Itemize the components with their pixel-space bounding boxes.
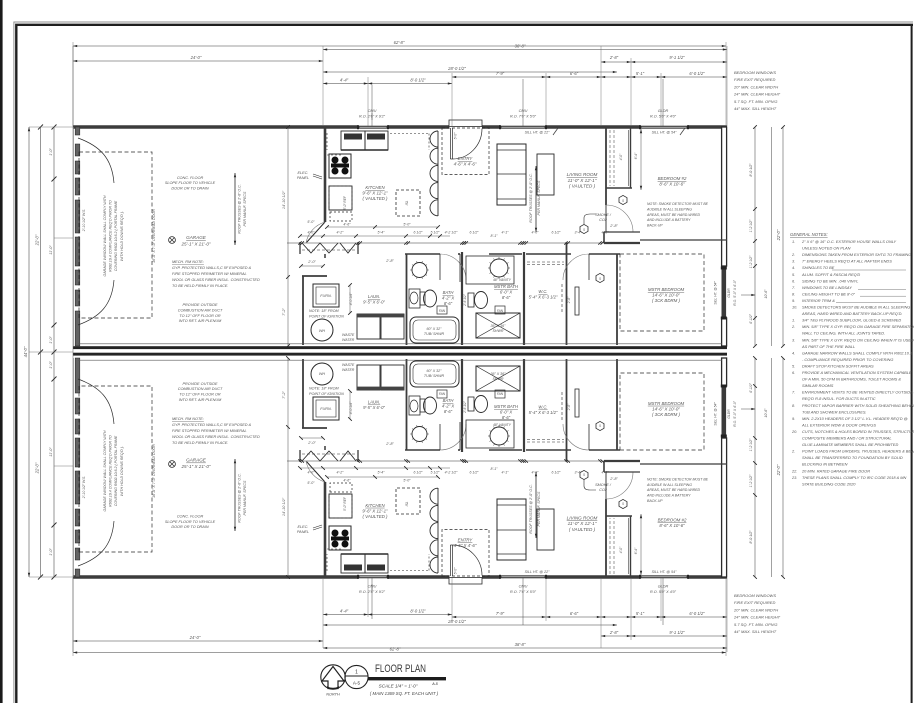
svg-text:3/4" T&G PLYWOOD SUBFLOOR, GLU: 3/4" T&G PLYWOOD SUBFLOOR, GLUED & SCREW… [802,318,901,323]
svg-text:PROVIDE OUTSIDE: PROVIDE OUTSIDE [182,382,217,386]
svg-text:WH: WH [319,329,325,333]
svg-text:9'-1 1/2": 9'-1 1/2" [669,630,685,635]
svg-text:CEILING HEIGHT TO BE 8'-0": CEILING HEIGHT TO BE 8'-0" [802,291,855,296]
svg-text:1'-2 1/2": 1'-2 1/2" [749,255,753,268]
svg-text:TO 12" OFF FLOOR OR: TO 12" OFF FLOOR OR [179,393,221,397]
svg-text:R.O. 2'6" X 9'2": R.O. 2'6" X 9'2" [359,590,386,594]
svg-text:POINT OF IGNITION: POINT OF IGNITION [309,314,344,318]
svg-text:GYP. PROTECTED WALLS,C 5F EXPO: GYP. PROTECTED WALLS,C 5F EXPOSED & [172,266,252,270]
svg-text:4.: 4. [792,265,795,270]
svg-text:CMU: CMU [519,585,528,589]
svg-text:WASTE: WASTE [342,363,355,367]
svg-text:4'-2 1/2": 4'-2 1/2" [445,231,459,235]
svg-text:36" X 36": 36" X 36" [491,324,507,328]
svg-text:16'-0" X 7'-0" OVERHEAD DOOR: 16'-0" X 7'-0" OVERHEAD DOOR [152,209,156,263]
svg-text:7'-2": 7'-2" [282,308,286,316]
svg-text:4'-0": 4'-0" [308,231,316,235]
svg-text:AREAS, HARD WIRED AND BATTERY: AREAS, HARD WIRED AND BATTERY BACK-UP RE… [801,311,902,316]
svg-text:( 3CK BDRM ): ( 3CK BDRM ) [652,298,681,303]
svg-text:5'-0": 5'-0" [403,479,411,483]
svg-text:4'-6" X 4'-6": 4'-6" X 4'-6" [454,162,477,167]
svg-text:SILL HT. @ 54": SILL HT. @ 54" [714,402,718,426]
svg-text:ENTRY: ENTRY [458,537,474,542]
svg-text:WH: WH [319,372,325,376]
svg-text:3'-4": 3'-4" [575,231,583,235]
svg-text:5'-1": 5'-1" [636,611,645,616]
svg-text:4.: 4. [792,350,795,355]
svg-text:MIN. 5/8" TYPE X GYP. REQ'D ON: MIN. 5/8" TYPE X GYP. REQ'D ON GARAGE FI… [802,324,914,329]
svg-text:2'-10 1/2" W.S.: 2'-10 1/2" W.S. [82,476,86,500]
svg-text:LIVING ROOM: LIVING ROOM [567,172,598,177]
svg-text:62'-8": 62'-8" [394,40,405,45]
svg-text:SILL HT. @ 54": SILL HT. @ 54" [652,570,677,574]
svg-text:22'-0": 22'-0" [776,464,781,476]
svg-text:2'-6 1/2": 2'-6 1/2" [463,400,467,414]
svg-text:5.7 SQ. FT. MIN. OPN'G: 5.7 SQ. FT. MIN. OPN'G [734,99,778,104]
svg-text:COMBUSTION AIR DUCT: COMBUSTION AIR DUCT [178,387,223,391]
svg-text:7'-9": 7'-9" [496,71,505,76]
svg-text:GLUE-LAMINATE MEMBERS SHALL BE: GLUE-LAMINATE MEMBERS SHALL BE PROHIBITE… [802,442,898,447]
svg-text:R.O. 5'0" X 4'0": R.O. 5'0" X 4'0" [650,590,677,594]
svg-text:14'-10 1/2": 14'-10 1/2" [282,497,286,516]
svg-text:44" MAX. SILL HEIGHT: 44" MAX. SILL HEIGHT [734,106,777,111]
svg-text:2'-10 1/2" W.S.: 2'-10 1/2" W.S. [82,209,86,233]
svg-text:SMOKE /: SMOKE / [595,483,612,487]
svg-text:2'-8": 2'-8" [609,630,619,635]
svg-text:6.: 6. [792,370,795,375]
svg-text:AND INCLUDE A BATTERY: AND INCLUDE A BATTERY [646,494,691,498]
svg-text:REQ'D R-8 INSUL. FOR DUCTS IN: REQ'D R-8 INSUL. FOR DUCTS IN ATTIC [802,396,876,401]
svg-text:R.O. 7'6" X 5'0": R.O. 7'6" X 5'0" [510,590,537,594]
svg-text:PANEL: PANEL [297,530,309,534]
svg-text:INTO RET. AIR PLENUM: INTO RET. AIR PLENUM [179,398,222,402]
svg-text:SCALE 1/4" = 1'-0": SCALE 1/4" = 1'-0" [379,684,418,689]
svg-text:20.: 20. [791,429,797,434]
svg-text:GARAGE WINDOW WALL SHALL COMPL: GARAGE WINDOW WALL SHALL COMPLY WITH [103,430,107,511]
svg-text:MECH. RM NOTE:: MECH. RM NOTE: [172,260,204,264]
svg-text:4'-0 1/4": 4'-0 1/4" [349,292,353,305]
svg-text:24'-0": 24'-0" [189,635,201,640]
svg-text:4'-2" X: 4'-2" X [442,295,455,300]
svg-text:1'-2 1/2": 1'-2 1/2" [749,474,753,487]
svg-text:3'-4": 3'-4" [575,471,583,475]
svg-text:FIRE STOPPED PERIMETER W/ MINE: FIRE STOPPED PERIMETER W/ MINERAL [172,272,247,276]
svg-text:4'-2": 4'-2" [337,231,345,235]
svg-text:SILL HT. @ 22": SILL HT. @ 22" [525,570,550,574]
svg-text:8'-1": 8'-1" [491,467,499,471]
svg-text:3.: 3. [792,337,795,342]
svg-text:2'-6 1/2": 2'-6 1/2" [463,293,467,307]
svg-text:PER MANUF. SPECS: PER MANUF. SPECS [537,491,541,526]
svg-text:2.: 2. [791,449,795,454]
svg-text:22.: 22. [791,468,797,473]
svg-text:2'-8": 2'-8" [567,403,571,411]
svg-text:OF A MIN. 50 CFM IN BATHROOMS,: OF A MIN. 50 CFM IN BATHROOMS, TOILET RO… [802,377,901,382]
svg-text:POINT OF IGNITION: POINT OF IGNITION [309,392,344,396]
svg-text:SIDING TO BE MIN. .040 VINYL: SIDING TO BE MIN. .040 VINYL [802,278,858,283]
svg-text:8'-6": 8'-6" [502,415,511,420]
svg-text:11'-0" X 12'-1": 11'-0" X 12'-1" [568,178,597,183]
svg-text:23.: 23. [791,475,797,480]
svg-text:ENVIRONMENT VENTS TO BE VENTED: ENVIRONMENT VENTS TO BE VENTED DIRECTLY … [802,390,914,395]
svg-text:6.: 6. [792,278,795,283]
svg-text:4'-4": 4'-4" [340,78,349,83]
svg-text:10.: 10. [792,305,797,310]
svg-text:4'-0": 4'-0" [308,471,316,475]
svg-text:20" MIN. CLEAR WIDTH: 20" MIN. CLEAR WIDTH [733,84,778,89]
svg-text:5: 5 [583,473,585,477]
svg-text:1'-0": 1'-0" [49,336,53,344]
svg-text:2'-0": 2'-0" [307,260,316,264]
svg-text:4'-0": 4'-0" [602,471,610,475]
svg-text:TO BE HELD FIRMLY IN PLACE.: TO BE HELD FIRMLY IN PLACE. [172,441,228,445]
svg-text:1'-0": 1'-0" [49,361,53,369]
svg-text:SMOKE DETECTORS MUST BE AUDIBL: SMOKE DETECTORS MUST BE AUDIBLE IN ALL S… [802,305,910,310]
svg-text:ISL: ISL [405,501,409,506]
svg-text:TO 12" OFF FLOOR OR: TO 12" OFF FLOOR OR [179,314,221,318]
svg-text:A-5: A-5 [353,681,361,686]
svg-text:14'-6" X 10'-0": 14'-6" X 10'-0" [652,406,680,411]
svg-text:60" X 32": 60" X 32" [427,369,443,373]
svg-text:1: 1 [355,670,358,676]
svg-text:6 1/2": 6 1/2" [413,471,423,475]
svg-text:GENERAL NOTES:: GENERAL NOTES: [790,232,828,237]
svg-text:8'-6" X 10'-6": 8'-6" X 10'-6" [659,182,685,187]
svg-text:3.: 3. [792,259,795,264]
svg-text:LAUN.: LAUN. [368,294,380,299]
svg-text:4'-0": 4'-0" [619,153,623,160]
svg-text:FURN.: FURN. [320,294,332,298]
svg-text:2" X 6" @ 16" O.C. EXTERIOR HO: 2" X 6" @ 16" O.C. EXTERIOR HOUSE WALLS … [801,239,897,244]
svg-text:BACK-UP: BACK-UP [647,224,663,228]
svg-text:7.: 7. [792,285,795,290]
svg-text:CMU: CMU [368,585,377,589]
svg-text:MIN. 2-2X10 HEADERS OF 3 1/2": MIN. 2-2X10 HEADERS OF 3 1/2" L.V.L. HEA… [802,416,908,421]
svg-text:NOTE: SMOKE DETECTOR MUST BE: NOTE: SMOKE DETECTOR MUST BE [647,477,709,481]
svg-text:PER MANUF. SPECS: PER MANUF. SPECS [243,480,247,515]
svg-text:MIN. 5/8" TYPE X GYP. REQ'D ON: MIN. 5/8" TYPE X GYP. REQ'D ON CEILING W… [802,337,914,342]
svg-text:4'-0": 4'-0" [532,231,540,235]
svg-text:WASTE: WASTE [342,333,355,337]
svg-text:WOOL OR GLASS FIBER INSUL. CON: WOOL OR GLASS FIBER INSUL. CONSTRUCTED [172,278,260,282]
svg-text:4'-1": 4'-1" [502,471,510,475]
svg-text:FAN: FAN [497,309,504,313]
svg-text:10'-6": 10'-6" [764,408,768,418]
svg-text:NOTE: 18" FROM: NOTE: 18" FROM [309,309,340,313]
svg-text:DOOR OR TO DRAIN: DOOR OR TO DRAIN [171,186,209,190]
svg-text:25'-1" X 21'-0": 25'-1" X 21'-0" [180,464,210,469]
svg-text:6'-6": 6'-6" [570,71,579,76]
svg-text:4'-0": 4'-0" [619,546,623,553]
svg-text:8'-6": 8'-6" [502,295,511,300]
svg-text:2'-8": 2'-8" [385,259,394,263]
svg-text:W.C.: W.C. [538,405,547,410]
svg-text:8'-0 1/2": 8'-0 1/2" [749,163,753,177]
svg-text:BACK-UP: BACK-UP [647,499,663,503]
svg-text:5'-4": 5'-4" [378,471,386,475]
svg-text:BEDROOM WINDOWS: BEDROOM WINDOWS [734,70,776,75]
svg-text:22'-0": 22'-0" [35,462,40,474]
svg-text:5: 5 [599,277,601,281]
svg-text:DOOR OR TO DRAIN: DOOR OR TO DRAIN [171,525,209,529]
svg-text:FURN.: FURN. [320,407,332,411]
svg-text:NOTE: SMOKE DETECTOR MUST BE: NOTE: SMOKE DETECTOR MUST BE [647,202,709,206]
svg-text:( 3CK BDRM ): ( 3CK BDRM ) [652,412,681,417]
svg-text:7.: 7. [792,390,795,395]
svg-text:5'-0": 5'-0" [403,223,411,227]
svg-text:( VAULTED ): ( VAULTED ) [362,514,388,519]
svg-text:BEDROOM #2: BEDROOM #2 [658,517,687,522]
svg-text:LIVING ROOM: LIVING ROOM [567,515,598,520]
svg-text:LAUN.: LAUN. [368,400,380,405]
svg-text:WATER: WATER [342,338,355,342]
svg-text:TO BE HELD FIRMLY IN PLACE.: TO BE HELD FIRMLY IN PLACE. [172,284,228,288]
svg-text:( MAIN 1369 SQ. FT. EACH UNIT: ( MAIN 1369 SQ. FT. EACH UNIT ) [370,691,439,696]
svg-text:AND INCLUDE A BATTERY: AND INCLUDE A BATTERY [646,218,691,222]
svg-text:4'-0": 4'-0" [532,471,540,475]
svg-text:GYP. PROTECTED WALLS,C 5F EXPO: GYP. PROTECTED WALLS,C 5F EXPOSED & [172,423,252,427]
svg-text:WITH HOLD DOWNS REQ'D ).: WITH HOLD DOWNS REQ'D ). [120,446,124,496]
svg-text:2'-8": 2'-8" [609,477,618,481]
svg-text:2'-8": 2'-8" [609,224,618,228]
svg-text:AS PART OF THE FIRE WALL: AS PART OF THE FIRE WALL [801,344,855,349]
svg-text:AUDIBLE IN ALL SLEEPING: AUDIBLE IN ALL SLEEPING [646,483,692,487]
svg-text:PROVIDE OUTSIDE: PROVIDE OUTSIDE [182,303,217,307]
svg-text:20 MIN. RATED GARAGE FIRE DOOR: 20 MIN. RATED GARAGE FIRE DOOR [801,468,870,473]
svg-text:5'-0" REF: 5'-0" REF [343,496,347,511]
svg-text:5: 5 [583,228,585,232]
svg-text:4'-6": 4'-6" [343,479,351,483]
svg-text:KITCHEN: KITCHEN [365,185,385,190]
svg-text:48" VANITY: 48" VANITY [493,278,512,282]
svg-text:SILL HT. @ 54": SILL HT. @ 54" [652,131,677,135]
svg-text:FAN: FAN [439,392,446,396]
svg-text:4'-2 1/2": 4'-2 1/2" [445,471,459,475]
svg-text:6'-6": 6'-6" [570,611,579,616]
svg-text:BLOCKING IN BETWEEN: BLOCKING IN BETWEEN [802,462,848,467]
svg-text:CMU: CMU [368,109,377,113]
svg-text:1'-0": 1'-0" [49,148,53,156]
svg-text:22'-0": 22'-0" [35,234,40,246]
svg-text:25'-1" X 21'-0": 25'-1" X 21'-0" [180,241,210,246]
svg-text:16'-0" X 7'-0" OVERHEAD DOOR: 16'-0" X 7'-0" OVERHEAD DOOR [152,444,156,498]
svg-text:9'-5" X 6'-0": 9'-5" X 6'-0" [363,299,385,304]
svg-text:SHALL BE TRANSFERRED TO FOUNDA: SHALL BE TRANSFERRED TO FOUNDATION BY SO… [802,455,903,460]
svg-text:8'-0 1/2": 8'-0 1/2" [410,609,426,614]
svg-text:4'-0 1/4": 4'-0 1/4" [349,401,353,414]
svg-text:14'-10 1/2": 14'-10 1/2" [282,190,286,209]
svg-text:5'-4" X 6'-3 1/2": 5'-4" X 6'-3 1/2" [529,410,558,415]
svg-text:SLOPE FLOOR TO VEHICLE: SLOPE FLOOR TO VEHICLE [165,520,216,524]
svg-text:R.O. 2'6" X 9'2": R.O. 2'6" X 9'2" [359,115,386,119]
svg-text:( VAULTED ): ( VAULTED ) [569,184,596,189]
svg-text:W.C.: W.C. [538,289,547,294]
svg-text:5 1/2": 5 1/2" [430,471,440,475]
svg-text:TUB/ SHWR: TUB/ SHWR [424,374,445,378]
svg-text:POINT LOADS FROM GIRDERS, TRUS: POINT LOADS FROM GIRDERS, TRUSSES, HEADE… [802,449,914,454]
svg-text:MSTR BATH: MSTR BATH [494,404,519,409]
svg-text:COVERING R602.10.6.2 ( PORTAL: COVERING R602.10.6.2 ( PORTAL FRAME [114,200,118,271]
svg-text:MSTR BEDROOM: MSTR BEDROOM [648,287,685,292]
svg-text:FAN: FAN [497,392,504,396]
svg-text:5: 5 [622,199,624,203]
svg-text:ENTRY: ENTRY [458,156,474,161]
svg-text:FIRE STOPPED PERIMETER W/ MINE: FIRE STOPPED PERIMETER W/ MINERAL [172,429,247,433]
svg-text:60" X 32": 60" X 32" [427,327,443,331]
svg-text:SIMILAR ROOMS: SIMILAR ROOMS [802,383,834,388]
svg-text:CO2: CO2 [599,218,608,222]
svg-text:ROOF TRUSSES @ 2'-0" O.C.: ROOF TRUSSES @ 2'-0" O.C. [529,484,533,533]
svg-text:INTO RET. AIR PLENUM: INTO RET. AIR PLENUM [179,319,222,323]
svg-text:5'-0": 5'-0" [454,132,458,140]
svg-text:2'-8": 2'-8" [567,296,571,304]
svg-text:DIMENSIONS TAKEN FROM EXTERIOR: DIMENSIONS TAKEN FROM EXTERIOR SHTG TO F… [802,252,911,257]
svg-text:8'-6": 8'-6" [444,409,453,414]
svg-text:WITH HOLD DOWNS REQ'D ).: WITH HOLD DOWNS REQ'D ). [120,211,124,261]
svg-text:8'-0 1/2": 8'-0 1/2" [749,530,753,544]
svg-text:UNLESS NOTED ON PLAN: UNLESS NOTED ON PLAN [802,246,851,251]
svg-text:24" MIN. CLEAR HEIGHT: 24" MIN. CLEAR HEIGHT [733,92,781,97]
svg-text:PER MANUF. SPECS: PER MANUF. SPECS [243,191,247,226]
svg-text:5: 5 [622,502,624,506]
svg-text:7'-2": 7'-2" [282,391,286,399]
svg-text:GARAGE WINDOW WALL SHALL COMPL: GARAGE WINDOW WALL SHALL COMPLY WITH [103,195,107,276]
svg-text:2.: 2. [791,252,795,257]
svg-text:36" X 36": 36" X 36" [491,372,507,376]
svg-text:44'-0": 44'-0" [23,346,28,357]
svg-text:CMU: CMU [519,109,528,113]
svg-text:6'-0 1/2": 6'-0 1/2" [689,71,705,76]
svg-text:WALL TO CEILING, WITH ALL JOIN: WALL TO CEILING, WITH ALL JOINTS TAPED. [802,331,885,336]
svg-text:4'-2" X: 4'-2" X [442,404,455,409]
svg-text:TUB AND SHOWER ENCLOSURES.: TUB AND SHOWER ENCLOSURES. [802,409,867,414]
svg-text:4'-2": 4'-2" [337,471,345,475]
svg-text:28'-0 1/2": 28'-0 1/2" [447,66,466,71]
svg-text:5'-0": 5'-0" [307,220,315,224]
svg-text:TUB/ SHWR: TUB/ SHWR [424,332,445,336]
svg-text:R.O. 7'6" X 5'0": R.O. 7'6" X 5'0" [510,115,537,119]
svg-text:2.: 2. [791,324,795,329]
svg-text:R.O. 5'0" X 4'0": R.O. 5'0" X 4'0" [650,115,677,119]
svg-text:FAN: FAN [439,309,446,313]
svg-text:2'-0": 2'-0" [307,441,316,445]
svg-text:GLDR: GLDR [658,585,669,589]
svg-text:8'-0 1/2": 8'-0 1/2" [410,78,426,83]
svg-text:COMPOSITE MEMBERS AND / OR STR: COMPOSITE MEMBERS AND / OR STRUCTURAL [802,436,892,441]
svg-text:1'-0": 1'-0" [49,548,53,556]
svg-text:CO2: CO2 [599,488,608,492]
svg-text:6 1/2": 6 1/2" [469,231,479,235]
svg-text:FLOOR PLAN: FLOOR PLAN [375,663,426,675]
svg-text:AREAS, MUST BE HARD-WIRED: AREAS, MUST BE HARD-WIRED [646,488,701,492]
svg-text:38'-8": 38'-8" [515,642,526,647]
svg-text:ELEC.: ELEC. [298,525,309,529]
svg-text:GLDR: GLDR [727,288,731,298]
svg-text:9'-6" X 12'-1": 9'-6" X 12'-1" [362,508,388,513]
svg-text:48" VANITY: 48" VANITY [493,423,512,427]
svg-text:5'-0": 5'-0" [307,481,315,485]
svg-text:GLDR: GLDR [658,109,669,113]
svg-text:6 1/2": 6 1/2" [551,471,561,475]
svg-text:4'-6": 4'-6" [343,223,351,227]
svg-text:MSTR BEDROOM: MSTR BEDROOM [648,401,685,406]
svg-text:BATH: BATH [443,290,455,295]
svg-text:GLDR: GLDR [727,409,731,419]
svg-text:WATER: WATER [342,368,355,372]
svg-text:1.: 1. [792,239,795,244]
svg-text:AUDIBLE IN ALL SLEEPING: AUDIBLE IN ALL SLEEPING [646,207,692,211]
svg-text:2'-8": 2'-8" [609,55,619,60]
svg-text:9'-6" X 12'-1": 9'-6" X 12'-1" [362,191,388,196]
svg-text:BATH: BATH [443,398,455,403]
svg-text:SHWR: SHWR [493,377,504,381]
svg-text:FIRE EXIT REQUIRED: FIRE EXIT REQUIRED [734,600,775,605]
svg-text:R602.10.4 COMPLIANCE REQ'D PRI: R602.10.4 COMPLIANCE REQ'D PRIOR TO [109,200,113,272]
svg-text:CONC. FLOOR: CONC. FLOOR [177,515,204,519]
svg-text:6'-0 1/2": 6'-0 1/2" [689,611,705,616]
svg-text:2'-8": 2'-8" [385,442,394,446]
svg-text:STATE BUILDING CODE 2020: STATE BUILDING CODE 2020 [802,481,856,486]
svg-text:4'-6" X 4'-6": 4'-6" X 4'-6" [454,543,477,548]
svg-text:11'-0": 11'-0" [49,447,53,457]
svg-text:8.: 8. [792,403,795,408]
svg-text:CONC. FLOOR: CONC. FLOOR [177,176,204,180]
svg-text:9'-1 1/2": 9'-1 1/2" [669,55,685,60]
svg-text:GARAGE NARROW WALLS SHALL COMP: GARAGE NARROW WALLS SHALL COMPLY WITH R6… [802,350,912,355]
svg-text:PROVIDE A MECHANICAL VENTILATI: PROVIDE A MECHANICAL VENTILATION SYSTEM … [802,370,912,375]
svg-text:GARAGE: GARAGE [186,458,207,463]
svg-text:ROOF TRUSSES @ 2'-0" O.C.: ROOF TRUSSES @ 2'-0" O.C. [238,184,242,233]
svg-text:PANEL: PANEL [297,176,309,180]
svg-text:DRAFT STOP KITCHEN SOFFIT AREA: DRAFT STOP KITCHEN SOFFIT AREAS [802,363,874,368]
svg-text:1'-2 1/2": 1'-2 1/2" [749,219,753,232]
svg-text:- COMPLIANCE REQUIRED PRIOR TO: - COMPLIANCE REQUIRED PRIOR TO COVERING [802,357,893,362]
svg-text:28'-0 1/2": 28'-0 1/2" [447,619,466,624]
svg-text:ISL: ISL [405,200,409,205]
svg-text:ROOF TRUSSES @ 2'-0" O.C.: ROOF TRUSSES @ 2'-0" O.C. [529,173,533,222]
svg-text:6 1/2": 6 1/2" [469,471,479,475]
svg-text:8'-6": 8'-6" [444,301,453,306]
svg-text:6'-1/2": 6'-1/2" [749,313,753,323]
svg-text:COMBUSTION AIR DUCT: COMBUSTION AIR DUCT [178,308,223,312]
svg-text:R602.10.4 COMPLIANCE REQ'D PRI: R602.10.4 COMPLIANCE REQ'D PRIOR TO [109,435,113,507]
svg-text:7" ENERGY HEELS REQ'D AT ALL R: 7" ENERGY HEELS REQ'D AT ALL RAFTER ENDS [802,259,892,264]
svg-text:7'-9": 7'-9" [496,611,505,616]
svg-text:5'-0" REF: 5'-0" REF [343,195,347,210]
svg-text:6 1/2": 6 1/2" [413,231,423,235]
svg-text:6'-0" X: 6'-0" X [500,410,513,415]
svg-text:4'-4": 4'-4" [340,609,349,614]
svg-text:PROTECT VAPOR BARRIER WITH SOL: PROTECT VAPOR BARRIER WITH SOLID SHEATHI… [802,403,914,408]
svg-text:10'-6": 10'-6" [764,289,768,299]
svg-text:6'-0" X: 6'-0" X [500,289,513,294]
svg-text:9.: 9. [792,416,795,421]
svg-text:R.O. 5'-0" X 4'-0": R.O. 5'-0" X 4'-0" [733,400,737,426]
svg-text:BEDROOM WINDOWS: BEDROOM WINDOWS [734,593,776,598]
svg-text:6'-1/2": 6'-1/2" [749,382,753,392]
svg-text:MECH. RM NOTE:: MECH. RM NOTE: [172,417,204,421]
svg-text:5'-4" X 6'-3 1/2": 5'-4" X 6'-3 1/2" [529,294,558,299]
svg-text:6 1/2": 6 1/2" [551,231,561,235]
svg-text:KITCHEN: KITCHEN [365,503,385,508]
svg-text:5.: 5. [792,272,795,277]
svg-text:ALL EXTERIOR WDW & DOOR OPEN'G: ALL EXTERIOR WDW & DOOR OPEN'GS [801,422,876,427]
svg-text:5'-1": 5'-1" [636,71,645,76]
svg-text:24" MIN. CLEAR HEIGHT: 24" MIN. CLEAR HEIGHT [733,615,781,620]
svg-text:11'-0": 11'-0" [49,245,53,255]
svg-text:A-5: A-5 [431,682,438,686]
svg-text:SLOPE FLOOR TO VEHICLE: SLOPE FLOOR TO VEHICLE [165,181,216,185]
